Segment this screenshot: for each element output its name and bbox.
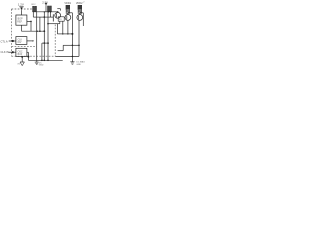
wire box1 output (27, 20, 31, 22)
wire supply2 to rail (45, 5, 47, 11)
wire box M1 bottom (59, 21, 61, 24)
wire box U2 output (27, 40, 33, 42)
label R4 (76, 1, 85, 5)
wire input A (9, 40, 16, 42)
ground G1 bars (35, 61, 39, 63)
svg-text:CTL A: CTL A (1, 39, 8, 43)
label ground left (18, 64, 21, 66)
wire Q1 top to rail (57, 8, 60, 10)
node box U3 bottom (21, 56, 23, 58)
node input B (12, 51, 14, 53)
node (47, 23, 49, 25)
resistor R4 dark body (78, 5, 82, 9)
wire box U3 output right (27, 51, 29, 53)
resistor R2b (50, 6, 52, 12)
supply V1 terminal bar (19, 6, 23, 8)
svg-text:1.2V: 1.2V (18, 3, 24, 7)
resistor R1b (35, 6, 37, 11)
wire U3 to ground (21, 57, 23, 63)
node R2b rail (50, 11, 51, 12)
wire R2b down (50, 12, 52, 17)
wire R1b long down (36, 12, 38, 61)
wire box1 bottom (21, 25, 23, 31)
node (36, 30, 38, 32)
label resistor pair A (32, 4, 37, 6)
node (62, 33, 63, 34)
node (72, 56, 74, 58)
supply V2 arrow (45, 3, 47, 6)
wire R3 to node (67, 13, 69, 15)
label ground G1 (39, 62, 44, 66)
emitter bar H7 (63, 44, 79, 46)
wire node right (80, 12, 84, 14)
wire step up (62, 45, 64, 50)
wire step horizontal (58, 50, 64, 52)
bar under Q1 (48, 23, 60, 25)
svg-text:2.5V: 2.5V (42, 1, 48, 5)
box U1 reference (16, 15, 27, 25)
node at rail drop (27, 56, 29, 58)
supply V2 label (42, 1, 48, 5)
node (78, 45, 80, 47)
label input B (1, 50, 9, 54)
node (47, 60, 49, 62)
transistor Q1 (55, 12, 61, 18)
mid bar H6 (42, 42, 49, 44)
node gate junction (44, 16, 46, 18)
chip boundary dashed box (12, 9, 56, 56)
ground triangle sides (20, 62, 24, 66)
node (44, 42, 46, 44)
wire output down (30, 21, 32, 31)
resistor R3 dark body (66, 5, 70, 9)
wire Q2 bottom down (67, 20, 69, 33)
box U2 (16, 37, 27, 45)
bar under Q2 (57, 33, 72, 35)
node (72, 45, 74, 47)
transistor Q2 (65, 15, 71, 21)
wire R1a down (32, 12, 34, 17)
wire Q2 left lead down (62, 21, 64, 34)
svg-text:GND: GND (39, 65, 44, 67)
box M1 at Q1 output (58, 17, 64, 21)
node (43, 30, 45, 32)
transistor Q1 gate bar (52, 14, 54, 21)
node (47, 42, 49, 44)
wire supply1 to box1 (21, 10, 23, 15)
arrowhead U2 output (33, 40, 34, 42)
wire H6 left down (41, 43, 43, 60)
power rail top (32, 11, 57, 13)
wire node right (68, 12, 73, 14)
wire R4 to node (79, 13, 81, 15)
resistor R3 hatched body (66, 9, 70, 13)
wire right stub down (82, 13, 84, 26)
box U3 (16, 48, 27, 56)
resistor R1a (33, 6, 35, 11)
node (57, 11, 59, 13)
wire R2a long down (47, 12, 49, 61)
dashed internal boundary (12, 46, 37, 48)
wire input B (9, 51, 16, 53)
node (67, 33, 68, 34)
node R2a rail (48, 11, 49, 12)
resistor R4 hatched body (78, 9, 82, 13)
wire gate to Q1 (44, 16, 53, 18)
transistor Q3 (77, 15, 83, 21)
bottom rail left (28, 59, 62, 61)
node input A (12, 40, 14, 42)
label R3 (64, 2, 71, 5)
node (44, 11, 45, 12)
wire Q3 bottom long down (78, 20, 80, 56)
svg-text:BUF: BUF (18, 54, 23, 56)
ground G1 stem (36, 60, 38, 62)
supply V1 label (18, 3, 24, 7)
node (39, 30, 41, 32)
ground triangle bar (20, 61, 24, 63)
svg-text:CLK IN: CLK IN (1, 50, 9, 54)
wire Q1 stem down (56, 24, 58, 34)
vertical wire Va (43, 12, 45, 61)
svg-text:2: 2 (83, 1, 84, 3)
resistor R2a (48, 6, 50, 12)
bottom rail right (55, 55, 79, 57)
svg-text:VDD2: VDD2 (76, 2, 83, 5)
svg-text:REF.: REF. (17, 21, 23, 24)
wire right lead down (71, 13, 73, 62)
node (41, 60, 43, 62)
wire horizontal to corner (33, 16, 44, 18)
svg-text:GND: GND (76, 64, 81, 66)
label ground G2 (76, 61, 85, 67)
wire feedback horizontal (22, 30, 45, 32)
node (44, 60, 46, 62)
node output (30, 21, 32, 23)
supply V1 arrow (20, 7, 22, 10)
ground G2 bars (70, 61, 74, 63)
svg-text:DIV: DIV (18, 42, 22, 44)
svg-text:VDD1: VDD1 (64, 2, 71, 5)
node (71, 33, 73, 35)
wire corner down (39, 17, 41, 31)
label input A (1, 39, 8, 43)
